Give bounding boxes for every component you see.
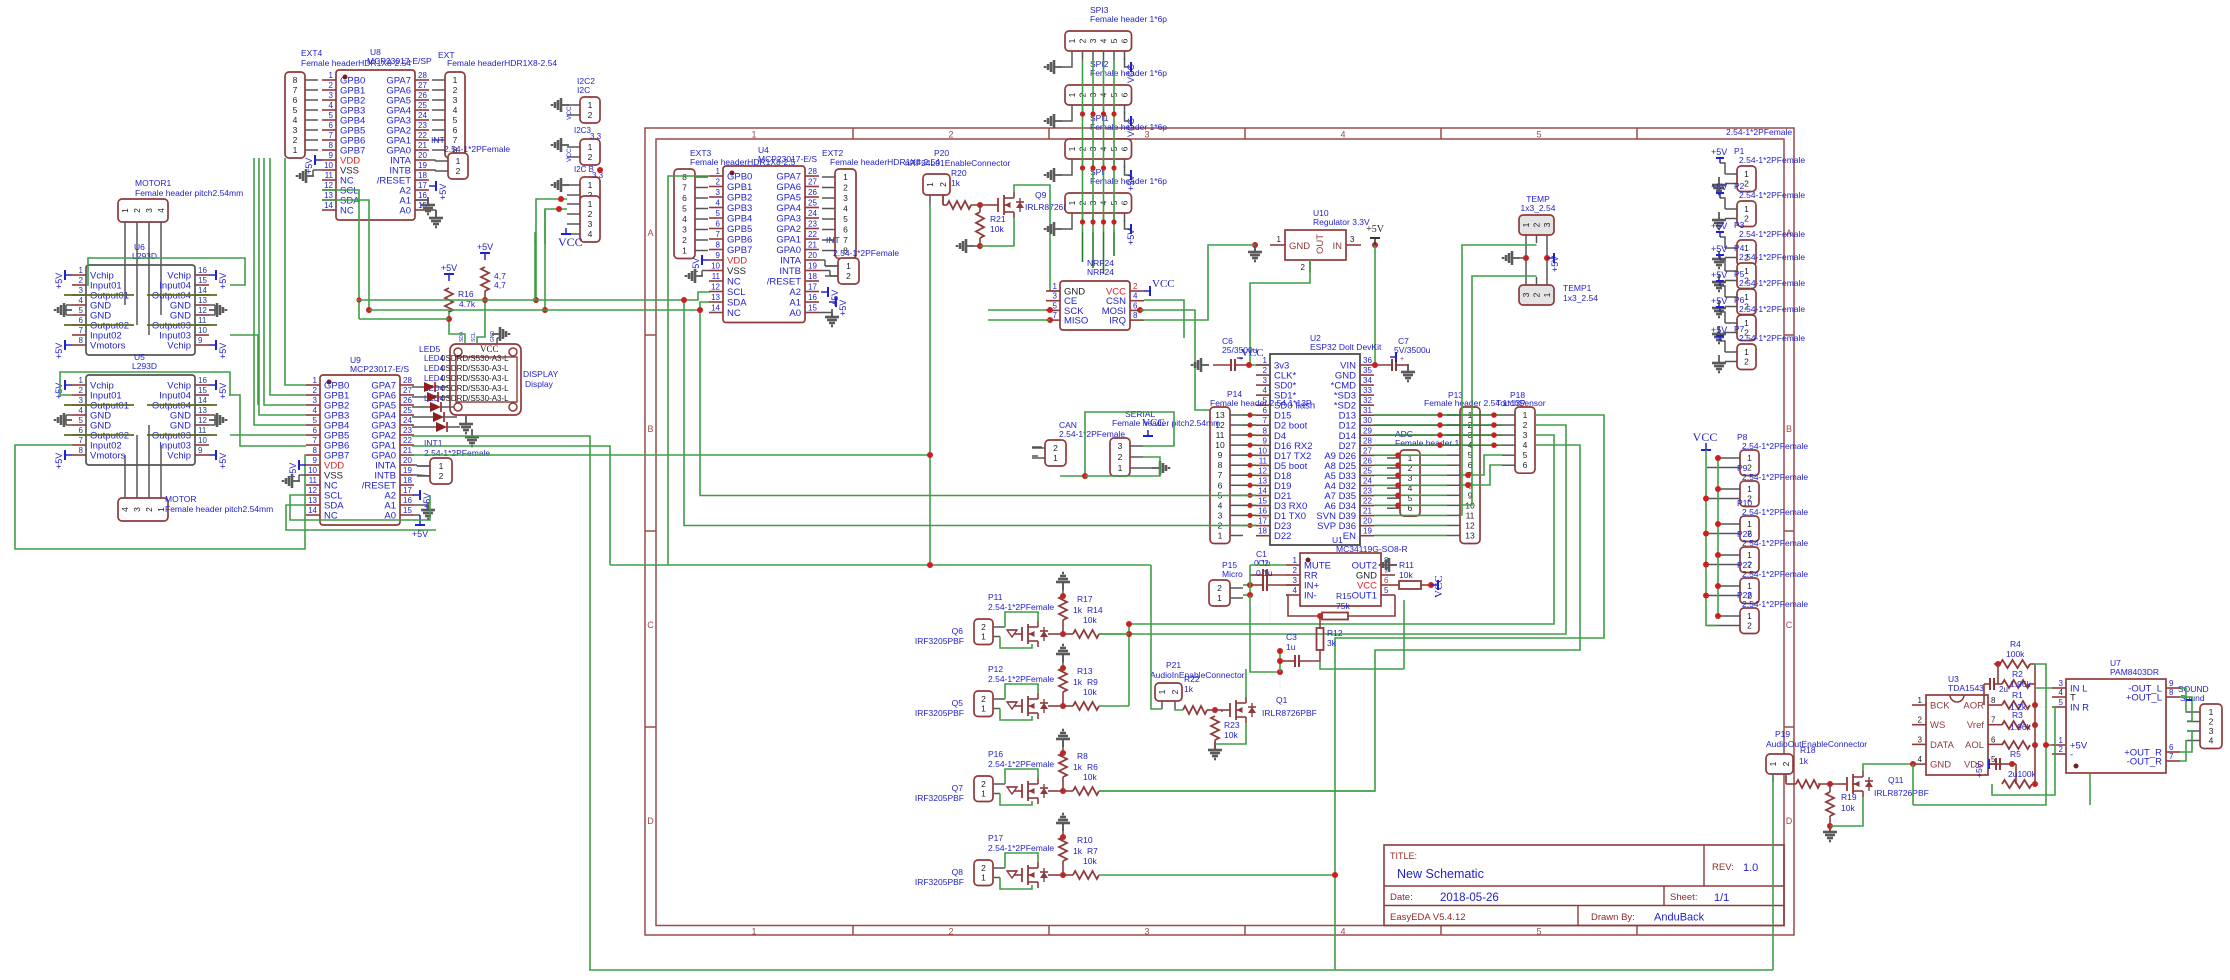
wire rail y310 (369, 302, 1048, 310)
svg-text:1: 1 (1293, 556, 1298, 565)
svg-text:1: 1 (1217, 593, 1222, 603)
svg-text:14: 14 (1258, 487, 1267, 496)
wire bottom long rail (589, 969, 1773, 971)
svg-text:10k: 10k (1841, 803, 1855, 813)
wire ladder to U7 ins (2035, 688, 2052, 707)
svg-text:Micro: Micro (1222, 569, 1243, 579)
svg-text:14: 14 (198, 286, 207, 295)
svg-text:P11: P11 (988, 592, 1003, 602)
power rot labels VCC at I2C column (566, 106, 573, 162)
svg-text:3: 3 (1542, 222, 1552, 227)
header ADC Female header 1*6p (1387, 429, 1472, 516)
svg-text:R13: R13 (1077, 666, 1093, 676)
svg-text:Regulator 3.3V: Regulator 3.3V (1313, 217, 1370, 227)
svg-text:R17: R17 (1077, 594, 1093, 604)
svg-text:3: 3 (144, 208, 154, 213)
svg-text:6: 6 (1218, 480, 1223, 490)
svg-text:VCC: VCC (558, 235, 583, 249)
svg-text:16: 16 (198, 266, 207, 275)
net flag VCC below I2C column (558, 228, 583, 249)
svg-text:+5V: +5V (441, 263, 457, 273)
svg-text:7: 7 (313, 436, 318, 445)
wire GPA2 net U9 to enable chain (412, 436, 590, 970)
svg-text:16: 16 (198, 376, 207, 385)
svg-text:R2: R2 (2012, 669, 2023, 679)
svg-text:/RESET: /RESET (767, 277, 802, 288)
svg-text:27: 27 (403, 386, 412, 395)
svg-text:Vmotors: Vmotors (90, 451, 126, 462)
connector 2.54-1*2PFemale at U8 INTA/INTB (435, 144, 510, 179)
wire unit4 R7 output east (1099, 872, 1338, 878)
svg-text:8: 8 (2169, 688, 2174, 697)
svg-text:GPB0: GPB0 (727, 172, 752, 183)
wire U7 IN R loop (1992, 707, 2090, 805)
wire rail y320 (SDA) (359, 319, 1045, 320)
connector P6 (1711, 295, 1805, 343)
svg-text:11: 11 (198, 316, 207, 325)
wire Q9 source to ground net (980, 218, 1014, 246)
svg-text:10k: 10k (1083, 856, 1097, 866)
svg-text:D: D (647, 816, 654, 826)
svg-text:+: + (1400, 356, 1404, 363)
svg-text:NRF24: NRF24 (1087, 267, 1114, 277)
svg-text:23: 23 (403, 426, 412, 435)
svg-text:IRF3205PBF: IRF3205PBF (915, 793, 964, 803)
connector P26 (1707, 529, 1808, 573)
svg-text:VCC: VCC (1433, 575, 1445, 598)
svg-text:9: 9 (1218, 450, 1223, 460)
IC U7 PAM8403DR (2052, 658, 2180, 773)
wires TEMP to TEMP1 pins (1526, 235, 1547, 285)
IC U5 L293D (54, 352, 228, 469)
svg-text:A1: A1 (789, 298, 801, 309)
svg-text:26: 26 (808, 188, 817, 197)
svg-text:+5V: +5V (1366, 224, 1385, 235)
svg-text:2: 2 (1293, 566, 1298, 575)
svg-text:Q11: Q11 (1888, 775, 1904, 785)
wire Q1 gate from R22 (1221, 710, 1223, 712)
capacitor C4 series R2 (1984, 678, 2002, 705)
svg-text:1: 1 (1118, 463, 1123, 473)
svg-text:25: 25 (418, 101, 427, 110)
ground at C6 (1192, 358, 1209, 372)
svg-text:P12: P12 (988, 664, 1003, 674)
svg-text:1: 1 (1744, 292, 1749, 302)
svg-text:30: 30 (1363, 416, 1372, 425)
svg-text:1: 1 (329, 71, 334, 80)
svg-text:Vchip: Vchip (167, 341, 191, 352)
svg-text:2.54-1*2PFemale: 2.54-1*2PFemale (444, 144, 510, 154)
svg-text:6: 6 (716, 220, 721, 229)
svg-text:2.54-1*2PFemale: 2.54-1*2PFemale (1739, 229, 1805, 239)
svg-text:2: 2 (588, 110, 593, 120)
connector P1 (1711, 127, 1805, 194)
svg-text:1: 1 (456, 156, 461, 166)
IC U3 TDA1543 (1912, 674, 2002, 775)
svg-text:I2C: I2C (577, 85, 590, 95)
svg-text:7: 7 (1991, 716, 1996, 725)
svg-text:12: 12 (1258, 466, 1267, 475)
resistor R12 3k (1317, 616, 1343, 661)
header I2C B (567, 165, 604, 203)
wire P15 pin1 net down to C3 (1250, 595, 1283, 675)
svg-text:2.54-1*2PFemale: 2.54-1*2PFemale (424, 448, 490, 458)
svg-text:NC: NC (727, 277, 741, 288)
svg-text:2: 2 (439, 471, 444, 481)
svg-text:3.3: 3.3 (592, 171, 604, 180)
svg-text:17: 17 (808, 283, 817, 292)
LED diodes from U9 GPA pins (412, 382, 460, 432)
svg-text:15: 15 (198, 276, 207, 285)
svg-text:2u100k: 2u100k (2008, 769, 2037, 779)
svg-text:VCC: VCC (1126, 117, 1136, 137)
svg-text:+5V: +5V (218, 383, 228, 399)
svg-text:VCC: VCC (566, 106, 573, 120)
wire Q11 source to ground rail (1830, 797, 1863, 826)
svg-text:2: 2 (1781, 761, 1791, 766)
svg-text:VCC: VCC (1152, 278, 1175, 290)
svg-text:2.54-1*2PFemale: 2.54-1*2PFemale (1739, 304, 1805, 314)
svg-text:2.54-1*2PFemale: 2.54-1*2PFemale (1739, 278, 1805, 288)
wire SERIAL loop (1060, 412, 1174, 479)
svg-text:8: 8 (293, 75, 298, 85)
svg-text:3: 3 (682, 225, 687, 235)
resistor R11 10k (1395, 560, 1431, 589)
svg-text:6: 6 (453, 125, 458, 135)
svg-text:1: 1 (925, 182, 935, 187)
svg-text:GPA3: GPA3 (776, 214, 801, 225)
resistor R2 1.96k (1999, 669, 2032, 694)
svg-text:3: 3 (132, 507, 142, 512)
IC U8 MCP23017-E/SP (322, 47, 432, 220)
wire C3 junction down to audio-in net (1279, 672, 1281, 690)
title block (1384, 845, 1784, 926)
blue mark at OUT_L (2186, 699, 2192, 701)
net flag VCC at C6 (1237, 347, 1264, 359)
header MOTOR1 (118, 178, 243, 232)
svg-text:L293D: L293D (132, 361, 157, 371)
svg-text:R16: R16 (458, 289, 474, 299)
svg-text:P21: P21 (1166, 660, 1181, 670)
svg-text:4: 4 (2209, 736, 2214, 746)
svg-text:2: 2 (456, 166, 461, 176)
ground at U1 OUT2 (1380, 558, 1397, 572)
wire MOTOR pins into U5 (125, 425, 161, 498)
resistor R15 75k (1322, 591, 1352, 620)
svg-text:R12: R12 (1327, 628, 1343, 638)
svg-text:GPB5: GPB5 (727, 224, 752, 235)
svg-text:AOR: AOR (1963, 701, 1984, 712)
svg-text:14: 14 (324, 201, 333, 210)
svg-text:Q8: Q8 (952, 867, 964, 877)
svg-text:TEMP1: TEMP1 (1563, 283, 1592, 293)
svg-text:DATA: DATA (1930, 740, 1955, 751)
svg-text:1: 1 (751, 927, 756, 937)
svg-text:1: 1 (120, 208, 130, 213)
svg-text:3k: 3k (1327, 638, 1337, 648)
svg-text:7: 7 (682, 183, 687, 193)
svg-text:0SDRD/S530-A3-L: 0SDRD/S530-A3-L (441, 364, 509, 373)
svg-text:19: 19 (418, 161, 427, 170)
header P14 Female header 2.54 1*13P (1210, 389, 1312, 543)
svg-text:1k: 1k (1073, 605, 1083, 615)
ground at R19 (1823, 816, 1837, 841)
power flag blue at VIN (1390, 352, 1396, 362)
svg-text:2: 2 (981, 622, 986, 632)
svg-text:1: 1 (1747, 453, 1752, 463)
svg-text:8: 8 (1218, 460, 1223, 470)
svg-text:4: 4 (588, 229, 593, 239)
wire GPA1 net U9 to bottom rail (412, 446, 610, 565)
svg-text:2.54-1*2PFemale: 2.54-1*2PFemale (1726, 127, 1792, 137)
svg-text:L293D: L293D (132, 251, 157, 261)
svg-text:P16: P16 (988, 749, 1003, 759)
wire audio enable long vertical (588, 969, 590, 971)
svg-text:1: 1 (1918, 696, 1923, 705)
svg-text:28: 28 (808, 167, 817, 176)
svg-text:GND: GND (490, 331, 496, 343)
svg-text:5: 5 (79, 416, 84, 425)
svg-text:Q7: Q7 (952, 783, 964, 793)
ground at C7 (1401, 364, 1415, 381)
svg-text:2.54-1*2PFemale: 2.54-1*2PFemale (1742, 507, 1808, 517)
svg-text:2: 2 (1118, 452, 1123, 462)
wire Q9 drain to NRF24 (1014, 185, 1060, 291)
wire GPB7 row to U9 GPB0 vertical (285, 158, 306, 385)
svg-text:Female headerHDR1X8-2.54: Female headerHDR1X8-2.54 (447, 58, 557, 68)
svg-text:IN-: IN- (1304, 591, 1317, 602)
svg-text:6: 6 (843, 225, 848, 235)
svg-text:13: 13 (324, 191, 333, 200)
power flag +5V at U10 IN (1366, 224, 1385, 248)
svg-text:3: 3 (2059, 679, 2064, 688)
svg-text:10: 10 (1215, 440, 1225, 450)
wire Q9 gate (989, 205, 990, 209)
svg-text:24: 24 (808, 209, 817, 218)
svg-text:+5V: +5V (54, 343, 64, 359)
svg-text:IRQ: IRQ (1109, 316, 1126, 327)
header I2C4 1x4 (567, 196, 600, 242)
svg-text:0SDRD/S530-A3-L: 0SDRD/S530-A3-L (441, 374, 509, 383)
svg-text:19: 19 (1363, 527, 1372, 536)
svg-text:3: 3 (329, 91, 334, 100)
svg-text:4: 4 (453, 105, 458, 115)
svg-text:4: 4 (1340, 130, 1345, 140)
svg-text:4: 4 (1523, 440, 1528, 450)
wires ESP32 right rows to P13 P18 (1374, 412, 1502, 535)
svg-text:GPA4: GPA4 (776, 203, 801, 214)
wire OUT1 branch down (1390, 606, 1392, 616)
svg-text:21: 21 (418, 141, 427, 150)
svg-text:3: 3 (1523, 430, 1528, 440)
svg-text:4: 4 (1340, 927, 1345, 937)
svg-text:1x3_2.54: 1x3_2.54 (1563, 293, 1598, 303)
svg-text:2: 2 (1217, 583, 1222, 593)
wire P21 pin1 from enable chain (1175, 709, 1183, 710)
svg-text:5: 5 (1384, 586, 1389, 595)
svg-text:3: 3 (2209, 726, 2214, 736)
svg-text:2.54-1*2PFemale: 2.54-1*2PFemale (1742, 569, 1808, 579)
svg-text:1: 1 (1053, 453, 1058, 463)
svg-text:+5V: +5V (1711, 182, 1727, 192)
resistor R19 10k (1826, 784, 1857, 816)
svg-text:32: 32 (1363, 396, 1372, 405)
svg-text:2.54-1*2PFemale: 2.54-1*2PFemale (988, 674, 1054, 684)
svg-text:Female headerHDR1X8-2.5: Female headerHDR1X8-2.5 (690, 157, 796, 167)
connector INT1 2.54-1*2PFemale (417, 438, 490, 484)
capacitor C6 25/3500u (1213, 336, 1258, 371)
svg-text:12: 12 (308, 486, 317, 495)
svg-text:8: 8 (682, 172, 687, 182)
svg-text:12: 12 (1465, 520, 1475, 530)
wire resistor ladder right bus (2030, 664, 2035, 784)
svg-text:21: 21 (808, 241, 817, 250)
svg-text:GND: GND (1289, 241, 1310, 252)
svg-text:A0: A0 (399, 206, 411, 217)
capacitor C1 0.1u (1250, 549, 1286, 581)
svg-text:18: 18 (1258, 527, 1267, 536)
svg-text:2.54-1*2PFemale: 2.54-1*2PFemale (1739, 190, 1805, 200)
svg-text:D22: D22 (1274, 531, 1291, 542)
svg-text:INTA: INTA (780, 256, 802, 267)
svg-text:18: 18 (808, 272, 817, 281)
svg-text:2u: 2u (1999, 685, 2008, 694)
svg-text:16: 16 (418, 191, 427, 200)
svg-text:P19: P19 (1775, 729, 1790, 739)
svg-text:GPA6: GPA6 (776, 182, 801, 193)
svg-text:10: 10 (198, 436, 207, 445)
ground at U4 A0 (819, 309, 839, 326)
svg-text:VCC: VCC (1693, 430, 1718, 444)
svg-text:1: 1 (1747, 519, 1752, 529)
svg-text:7: 7 (716, 230, 721, 239)
svg-text:9: 9 (313, 456, 318, 465)
svg-text:1: 1 (1067, 92, 1077, 97)
svg-text:GPA5: GPA5 (776, 193, 801, 204)
svg-text:7: 7 (1053, 311, 1058, 320)
svg-text:1: 1 (1744, 347, 1749, 357)
power flag +5V at U9 A2 (413, 490, 432, 509)
ground at TEMP pin1 (1503, 251, 1529, 265)
svg-text:6: 6 (79, 426, 84, 435)
wire GPB3 row to U9 GPB4 vertical (254, 158, 306, 425)
svg-text:15: 15 (198, 386, 207, 395)
connector P19 AudioOutEnableConnector (1766, 729, 1867, 782)
ground at SERIAL pin1 (1143, 461, 1169, 475)
SPI bus junction dots (1080, 111, 1117, 224)
resistor R20 1k (943, 168, 971, 209)
svg-text:1: 1 (981, 632, 986, 642)
svg-text:3: 3 (588, 219, 593, 229)
svg-text:SDA: SDA (459, 331, 465, 342)
svg-text:AOL: AOL (1965, 740, 1984, 751)
svg-text:1x3_2.54: 1x3_2.54 (1521, 203, 1556, 213)
svg-text:36: 36 (1363, 356, 1372, 365)
svg-text:8: 8 (716, 241, 721, 250)
wire U6 Input04 loop to left (86, 258, 245, 285)
svg-text:2.54-1*2PFemale: 2.54-1*2PFemale (1742, 441, 1808, 451)
svg-text:1: 1 (2059, 736, 2064, 745)
svg-text:2.54-1*2PFemale: 2.54-1*2PFemale (1742, 472, 1808, 482)
motor driver unit P16 Q7 R8 R6 (915, 730, 1099, 805)
wire U4 INTA INTB to INT2 header (819, 260, 838, 276)
svg-text:IN R: IN R (2070, 703, 2089, 714)
svg-text:1.0: 1.0 (1743, 862, 1758, 874)
junction dots NRF24 (1047, 307, 1143, 323)
junction dot R22-R23 (1207, 707, 1222, 713)
svg-text:P20: P20 (934, 148, 949, 158)
svg-text:+5V: +5V (54, 453, 64, 469)
wire U1 IN- to R15 loop (1286, 595, 1323, 619)
svg-text:10: 10 (711, 262, 720, 271)
svg-text:OUT1: OUT1 (1352, 591, 1377, 602)
wire unit2 R9 output east (1099, 634, 1129, 706)
svg-text:3: 3 (293, 125, 298, 135)
svg-text:15: 15 (403, 506, 412, 515)
svg-text:2: 2 (716, 178, 721, 187)
svg-text:5: 5 (2059, 698, 2064, 707)
svg-text:R6: R6 (1087, 762, 1098, 772)
header SPI2 (1065, 59, 1167, 114)
svg-text:-: - (2070, 750, 2073, 761)
svg-text:4: 4 (329, 101, 334, 110)
svg-text:1: 1 (1747, 611, 1752, 621)
svg-text:3: 3 (1118, 441, 1123, 451)
svg-text:24: 24 (418, 111, 427, 120)
svg-text:EXT4: EXT4 (301, 48, 323, 58)
svg-text:8: 8 (79, 446, 84, 455)
svg-text:1: 1 (1263, 356, 1268, 365)
svg-text:14: 14 (198, 396, 207, 405)
svg-text:1: 1 (751, 130, 756, 140)
power flag +5V at U4 VDD (691, 255, 709, 274)
svg-text:GND: GND (1930, 760, 1951, 771)
svg-text:3: 3 (453, 95, 458, 105)
svg-text:6: 6 (313, 426, 318, 435)
svg-text:4: 4 (716, 199, 721, 208)
svg-text:12: 12 (198, 416, 207, 425)
svg-text:Vmotors: Vmotors (90, 341, 126, 352)
svg-text:NC: NC (340, 206, 354, 217)
svg-text:3: 3 (1218, 510, 1223, 520)
IC U4 MCP23017-E/SP (709, 145, 819, 323)
svg-text:AudioOutEnableConnector: AudioOutEnableConnector (1766, 739, 1867, 749)
svg-text:1: 1 (1157, 689, 1167, 694)
resistor R16 4.7k (441, 263, 476, 312)
svg-text:P17: P17 (988, 833, 1003, 843)
resistor R18 1k (1786, 745, 1820, 788)
svg-text:1: 1 (1747, 550, 1752, 560)
ground at U4 VSS (686, 269, 709, 283)
wire P18 pin5 pin6 jogs (1460, 455, 1502, 488)
header SPI0 (1065, 167, 1167, 222)
svg-text:13: 13 (198, 296, 207, 305)
svg-text:0SDRD/S530-A3-L: 0SDRD/S530-A3-L (441, 394, 509, 403)
svg-text:1: 1 (453, 75, 458, 85)
svg-text:3: 3 (1053, 292, 1058, 301)
svg-text:19: 19 (808, 262, 817, 271)
svg-text:2: 2 (948, 927, 953, 937)
svg-text:2.54-1*2PFemale: 2.54-1*2PFemale (1739, 155, 1805, 165)
svg-text:2: 2 (948, 130, 953, 140)
wire TEMP1 pin2 to P13 area (1460, 276, 1537, 505)
motor driver unit P17 Q8 R10 R7 (915, 814, 1099, 889)
svg-text:+5V: +5V (477, 242, 493, 252)
svg-text:SDA: SDA (727, 298, 747, 309)
svg-text:C2: C2 (1258, 558, 1269, 568)
svg-text:4: 4 (79, 406, 84, 415)
svg-text:2: 2 (981, 863, 986, 873)
